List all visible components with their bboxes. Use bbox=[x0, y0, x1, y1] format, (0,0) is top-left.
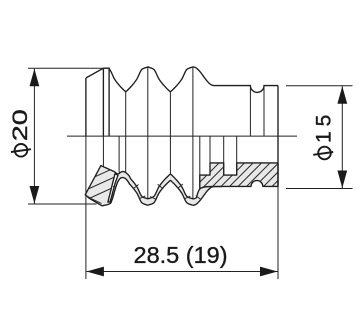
svg-text:20: 20 bbox=[9, 109, 32, 141]
svg-text:28.5 (19): 28.5 (19) bbox=[134, 242, 228, 268]
svg-text:15: 15 bbox=[313, 110, 336, 143]
